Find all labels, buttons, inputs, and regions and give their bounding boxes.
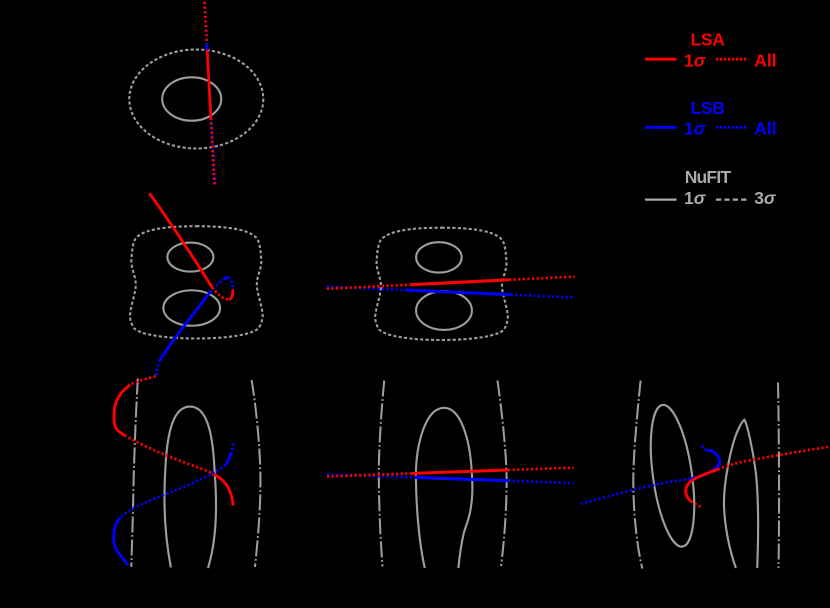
svg-text:1σ: 1σ — [684, 119, 707, 139]
svg-text:1σ: 1σ — [684, 51, 707, 71]
svg-text:LSA: LSA — [690, 30, 725, 50]
svg-text:LSB: LSB — [690, 98, 724, 118]
svg-text:All: All — [754, 51, 776, 71]
svg-text:NuFIT: NuFIT — [685, 167, 732, 187]
svg-text:3σ: 3σ — [754, 188, 777, 208]
svg-text:All: All — [754, 119, 776, 139]
svg-text:1σ: 1σ — [684, 188, 707, 208]
